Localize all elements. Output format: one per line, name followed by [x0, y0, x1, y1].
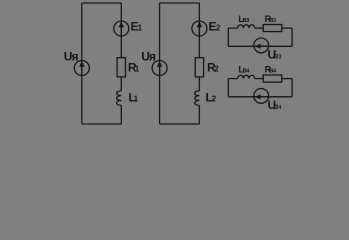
svg-text:Uя: Uя — [141, 50, 156, 64]
svg-text:Lв4: Lв4 — [238, 64, 250, 74]
svg-text:L1: L1 — [129, 91, 139, 105]
wire loop1 top — [82, 2, 122, 4]
wire loop3 left — [227, 28, 229, 46]
svg-text:R2: R2 — [207, 61, 219, 75]
svg-text:E2: E2 — [209, 20, 221, 34]
svg-text:Uв4: Uв4 — [268, 98, 283, 112]
wire loop2 bottom — [160, 123, 200, 125]
svg-text:L2: L2 — [206, 91, 217, 105]
inductor L1 — [117, 91, 122, 106]
wire loop2 right lower — [198, 77, 200, 124]
resistor Rв4 — [263, 75, 282, 82]
svg-text:Uв3: Uв3 — [268, 47, 282, 61]
wire loop3 bottom — [228, 45, 292, 47]
source E1 — [114, 21, 129, 36]
wire loop3 top-right segment — [282, 27, 292, 29]
inductor Lв4 — [238, 75, 255, 78]
inductor L2 — [195, 91, 200, 106]
wire loop4 top-right segment — [282, 78, 292, 80]
resistor Rв3 — [263, 25, 282, 32]
source Uя (armature) loop1 — [74, 61, 89, 76]
wire loop2 top — [160, 2, 200, 4]
svg-text:Lв3: Lв3 — [238, 14, 249, 24]
wire loop4 left — [227, 79, 229, 97]
wire loop1 right upper — [120, 3, 122, 58]
wire loop4 right — [291, 79, 293, 97]
wire loop1 right lower — [120, 77, 122, 124]
wire loop2 left — [159, 3, 161, 124]
resistor R1 — [117, 58, 125, 77]
svg-text:R1: R1 — [128, 61, 140, 75]
svg-text:Rв3: Rв3 — [265, 14, 276, 24]
wire loop3 top-left segment — [228, 27, 237, 29]
source Uя (armature) loop2 — [152, 61, 167, 76]
wire loop2 right upper — [198, 3, 200, 58]
wire loop3 top-mid segment — [255, 27, 264, 29]
svg-text:E1: E1 — [131, 20, 143, 34]
source Uв3 — [254, 38, 269, 53]
svg-text:Uя: Uя — [64, 50, 79, 64]
resistor R2 — [195, 58, 203, 77]
wire loop3 right — [291, 28, 293, 46]
wire loop1 bottom — [82, 123, 122, 125]
svg-text:Rв4: Rв4 — [265, 64, 277, 74]
wire loop4 top-mid segment — [255, 78, 264, 80]
inductor Lв3 — [238, 25, 255, 28]
source Uв4 — [254, 89, 269, 104]
source E2 — [192, 21, 207, 36]
wire loop4 top-left segment — [228, 78, 237, 80]
wire loop4 bottom — [228, 96, 292, 98]
wire loop1 left — [81, 3, 83, 124]
